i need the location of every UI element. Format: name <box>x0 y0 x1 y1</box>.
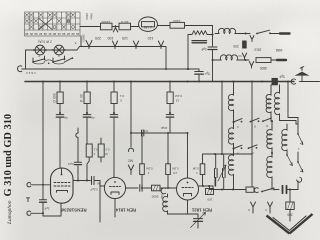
tap arrow 220 <box>86 41 92 49</box>
wire heater chain high <box>80 46 167 48</box>
tube2 bottom lead <box>114 199 116 217</box>
bus1 <box>26 68 200 70</box>
svg-text:1813: 1813 <box>254 48 261 52</box>
tube3 top lead <box>187 133 189 178</box>
svg-text:300: 300 <box>160 194 164 199</box>
polarity tick <box>27 198 30 202</box>
choke leads <box>188 35 192 70</box>
decoupling vertical x43 <box>42 82 44 200</box>
bottom wire <box>209 189 246 191</box>
terminal double bar <box>283 186 287 193</box>
cap 200 <box>289 190 291 203</box>
IF transformer <box>270 85 272 93</box>
speaker switch <box>250 36 254 42</box>
tube V3 REN1821 <box>177 178 199 200</box>
svg-text:M2: M2 <box>128 159 133 163</box>
earth ground symbol <box>289 210 291 222</box>
tone caps <box>214 178 216 187</box>
svg-text:88: 88 <box>53 32 57 36</box>
svg-text:2µF: 2µF <box>201 47 207 51</box>
hook <box>254 188 258 193</box>
svg-text:1 S 2 1: 1 S 2 1 <box>26 71 36 75</box>
lamp shorting switch b <box>53 59 65 62</box>
resistor 1075 <box>119 23 131 30</box>
cap 2u left <box>40 199 47 201</box>
svg-text:U 158: U 158 <box>143 25 152 29</box>
tube3 bottom lead <box>187 200 189 214</box>
contact row2 <box>234 145 243 148</box>
wire table to R chain <box>80 26 101 28</box>
svg-text:0,1M: 0,1M <box>192 167 199 171</box>
connector hook bus1 end <box>18 66 22 72</box>
speaker terminal 2 <box>277 59 286 61</box>
output transformer secondary coil <box>217 55 241 60</box>
R 20 chain <box>86 82 88 93</box>
svg-text:88: 88 <box>62 32 66 36</box>
variable cap bottom <box>188 214 199 218</box>
vertical from dot288 L-route <box>288 82 298 118</box>
osc coil low <box>228 153 233 178</box>
svg-text:5µ+: 5µ+ <box>204 72 210 76</box>
filter choke Dr <box>192 31 207 35</box>
rectifier tube U158 <box>139 17 158 31</box>
R 500 chain <box>59 82 61 93</box>
R 0,1M 13 chain <box>169 82 171 93</box>
R D right of tube3 <box>202 154 204 164</box>
plug arrow V1 <box>242 53 246 60</box>
svg-text:200: 200 <box>233 44 239 48</box>
lamp shorting switch a <box>33 59 45 62</box>
R 0,2M B <box>167 133 169 164</box>
tube2 right lead / coupling <box>126 187 138 189</box>
svg-text:500: 500 <box>52 93 56 99</box>
terminal circle T2 <box>27 211 31 215</box>
voltage selector table <box>25 12 81 36</box>
svg-text:Netz: Netz <box>90 13 94 20</box>
svg-text:4µ: 4µ <box>64 116 68 120</box>
svg-text:RENS1823d: RENS1823d <box>61 208 87 213</box>
svg-text:10µF: 10µF <box>160 126 167 130</box>
contact arcs <box>33 60 65 64</box>
svg-text:20: 20 <box>79 94 83 98</box>
terminal circle T1 <box>27 183 31 187</box>
svg-text:110: 110 <box>148 36 154 40</box>
R 0,1M 5 chain <box>113 82 115 93</box>
svg-text:13: 13 <box>176 99 180 103</box>
jog up <box>77 47 80 51</box>
svg-text:2 W b (A): 2 W b (A) <box>38 40 51 44</box>
resistor 4500 <box>256 58 271 63</box>
tap arrow 125 <box>133 41 138 49</box>
osc coil mid <box>228 126 233 147</box>
cap 2uF <box>208 46 217 48</box>
svg-text:1300: 1300 <box>173 19 181 23</box>
svg-text:t: t <box>299 147 300 151</box>
vertical x252 <box>251 82 253 188</box>
detector coil <box>233 82 235 94</box>
svg-text:2µ/3: 2µ/3 <box>68 162 74 166</box>
antenna hook <box>291 79 295 84</box>
svg-text:0,2: 0,2 <box>105 148 109 152</box>
coupling wire and cap <box>130 82 132 134</box>
svg-text:28: 28 <box>39 32 43 36</box>
svg-text:0,1M: 0,1M <box>172 167 179 171</box>
output transformer primary coil <box>215 28 239 33</box>
svg-text:5µF: 5µF <box>279 75 285 79</box>
tube V2 REN1814 <box>104 177 125 198</box>
svg-text:150: 150 <box>108 36 114 40</box>
tap arrow 110 <box>158 41 163 49</box>
cathode coil <box>163 194 168 214</box>
tuning coil Q <box>286 124 288 128</box>
svg-text:100: 100 <box>207 198 212 202</box>
svg-text:0,1: 0,1 <box>120 94 125 98</box>
svg-text:88: 88 <box>25 32 29 36</box>
svg-text:58: 58 <box>30 32 34 36</box>
svg-text:SB03: SB03 <box>82 34 86 42</box>
svg-text:1µ: 1µ <box>91 116 95 120</box>
plug connector dark <box>243 41 247 48</box>
lamp La1 <box>35 45 45 55</box>
svg-text:13000: 13000 <box>101 20 110 24</box>
wire <box>158 25 171 27</box>
svg-text:220: 220 <box>95 36 101 40</box>
tuning coil P lower <box>267 154 272 180</box>
svg-text:0,1: 0,1 <box>93 148 97 152</box>
svg-text:V1: V1 <box>238 54 242 58</box>
svg-text:220V: 220V <box>85 13 89 20</box>
svg-text:38: 38 <box>48 32 52 36</box>
right hook <box>297 177 302 182</box>
tube3 right lead <box>199 185 214 187</box>
bottom wire tube1 <box>43 203 61 216</box>
wire heater chain low <box>26 49 78 51</box>
svg-text:V: V <box>248 208 250 212</box>
tube1 anode wire <box>73 180 91 182</box>
svg-text:28: 28 <box>67 32 71 36</box>
R 0,1M A <box>141 133 143 164</box>
tube V1 RENS1823d <box>51 168 74 203</box>
svg-text:88: 88 <box>44 32 48 36</box>
wire tap end down <box>165 47 167 70</box>
svg-text:REN 1821: REN 1821 <box>191 208 212 213</box>
svg-text:88: 88 <box>35 32 39 36</box>
cap x78 <box>77 166 79 181</box>
svg-text:V: V <box>265 208 267 212</box>
tap tick <box>113 26 117 33</box>
lamp La2 <box>54 45 64 55</box>
pickup plug arrows <box>251 202 256 209</box>
svg-text:125: 125 <box>122 36 128 40</box>
svg-text:REN 1814: REN 1814 <box>115 208 136 213</box>
svg-text:0,1M: 0,1M <box>175 94 182 98</box>
wire y158 <box>203 153 253 155</box>
wire table to taps <box>80 36 82 47</box>
tube2 left lead <box>100 186 104 222</box>
svg-text:5000: 5000 <box>151 195 158 199</box>
switch blade <box>261 191 263 193</box>
wire <box>131 26 140 28</box>
electrolytic cap block <box>272 78 277 84</box>
resistor x101 <box>98 144 104 157</box>
right vertical switches <box>297 118 299 134</box>
hatched cap 100 <box>206 189 214 195</box>
svg-text:58: 58 <box>58 32 62 36</box>
tube3 left hook <box>161 188 165 194</box>
resistor x89 <box>86 144 92 157</box>
tap arrow 150 <box>112 41 117 49</box>
svg-text:0,5µF: 0,5µF <box>90 188 98 192</box>
speaker terminal 1 <box>280 32 290 34</box>
svg-text:2µF: 2µF <box>44 207 49 211</box>
svg-text:2,0: 2,0 <box>173 171 177 175</box>
svg-text:4500: 4500 <box>260 66 268 70</box>
grid leak block <box>152 185 161 191</box>
hop loop x78 <box>76 128 78 155</box>
small box <box>246 187 254 192</box>
tuning coil P upper <box>271 121 273 128</box>
wire lamp to selector <box>25 50 27 69</box>
wire to corner <box>185 26 213 47</box>
svg-text:1075: 1075 <box>121 20 129 24</box>
bridge cap 5uF <box>198 69 200 71</box>
coil Q switch arrow <box>287 155 293 166</box>
svg-text:58: 58 <box>76 32 80 36</box>
plug arrow row2 <box>249 62 253 69</box>
svg-text:88: 88 <box>72 32 76 36</box>
band switch contacts row <box>234 119 243 122</box>
wire <box>112 26 119 28</box>
wire to tube1 grid <box>43 184 51 186</box>
svg-text:0,1M: 0,1M <box>146 167 153 171</box>
svg-text:M88: M88 <box>276 48 283 52</box>
resistor 1300 <box>170 22 185 28</box>
antenna symbol <box>295 72 310 76</box>
bus2 main <box>25 81 294 83</box>
grid cap connector M2 <box>130 133 132 147</box>
resistor 13000 <box>101 23 113 30</box>
